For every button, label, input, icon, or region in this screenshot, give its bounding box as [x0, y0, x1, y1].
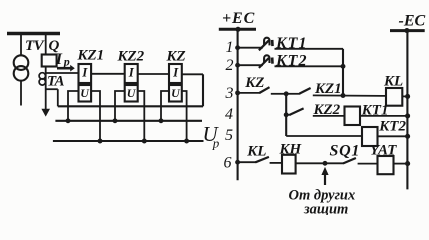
svg-text:TV: TV	[25, 38, 46, 54]
svg-text:р: р	[63, 55, 70, 69]
svg-text:KT1: KT1	[275, 35, 307, 52]
svg-text:+EC: +EC	[222, 10, 255, 27]
svg-text:U: U	[171, 86, 181, 100]
svg-text:защит: защит	[303, 202, 348, 216]
svg-text:I: I	[55, 51, 63, 68]
svg-text:6: 6	[224, 154, 232, 171]
svg-text:KZ2: KZ2	[313, 102, 341, 118]
svg-text:KT2: KT2	[275, 52, 307, 69]
svg-text:3: 3	[225, 85, 234, 102]
svg-text:KZ: KZ	[244, 75, 264, 91]
svg-text:-EC: -EC	[399, 13, 426, 30]
svg-text:р: р	[212, 136, 220, 151]
svg-text:KL: KL	[383, 73, 403, 89]
svg-text:KT2: KT2	[378, 119, 406, 135]
svg-text:KZ: KZ	[166, 49, 186, 65]
svg-text:U: U	[127, 86, 137, 100]
svg-text:U: U	[80, 86, 90, 100]
svg-text:KZ1: KZ1	[314, 81, 342, 97]
svg-text:TA: TA	[47, 73, 65, 89]
svg-text:5: 5	[225, 127, 233, 144]
svg-text:1: 1	[226, 39, 234, 56]
svg-text:I: I	[172, 65, 179, 80]
svg-text:KZ1: KZ1	[77, 48, 105, 64]
svg-text:4: 4	[225, 106, 233, 123]
svg-text:I: I	[128, 65, 135, 80]
svg-text:YAT: YAT	[370, 142, 397, 158]
svg-text:KL: KL	[246, 144, 266, 160]
svg-text:2: 2	[226, 57, 234, 74]
svg-text:SQ1: SQ1	[330, 143, 361, 160]
svg-text:I: I	[81, 65, 88, 80]
svg-text:KZ2: KZ2	[117, 48, 145, 64]
svg-text:KT1: KT1	[361, 103, 389, 119]
svg-text:KH: KH	[279, 142, 303, 158]
